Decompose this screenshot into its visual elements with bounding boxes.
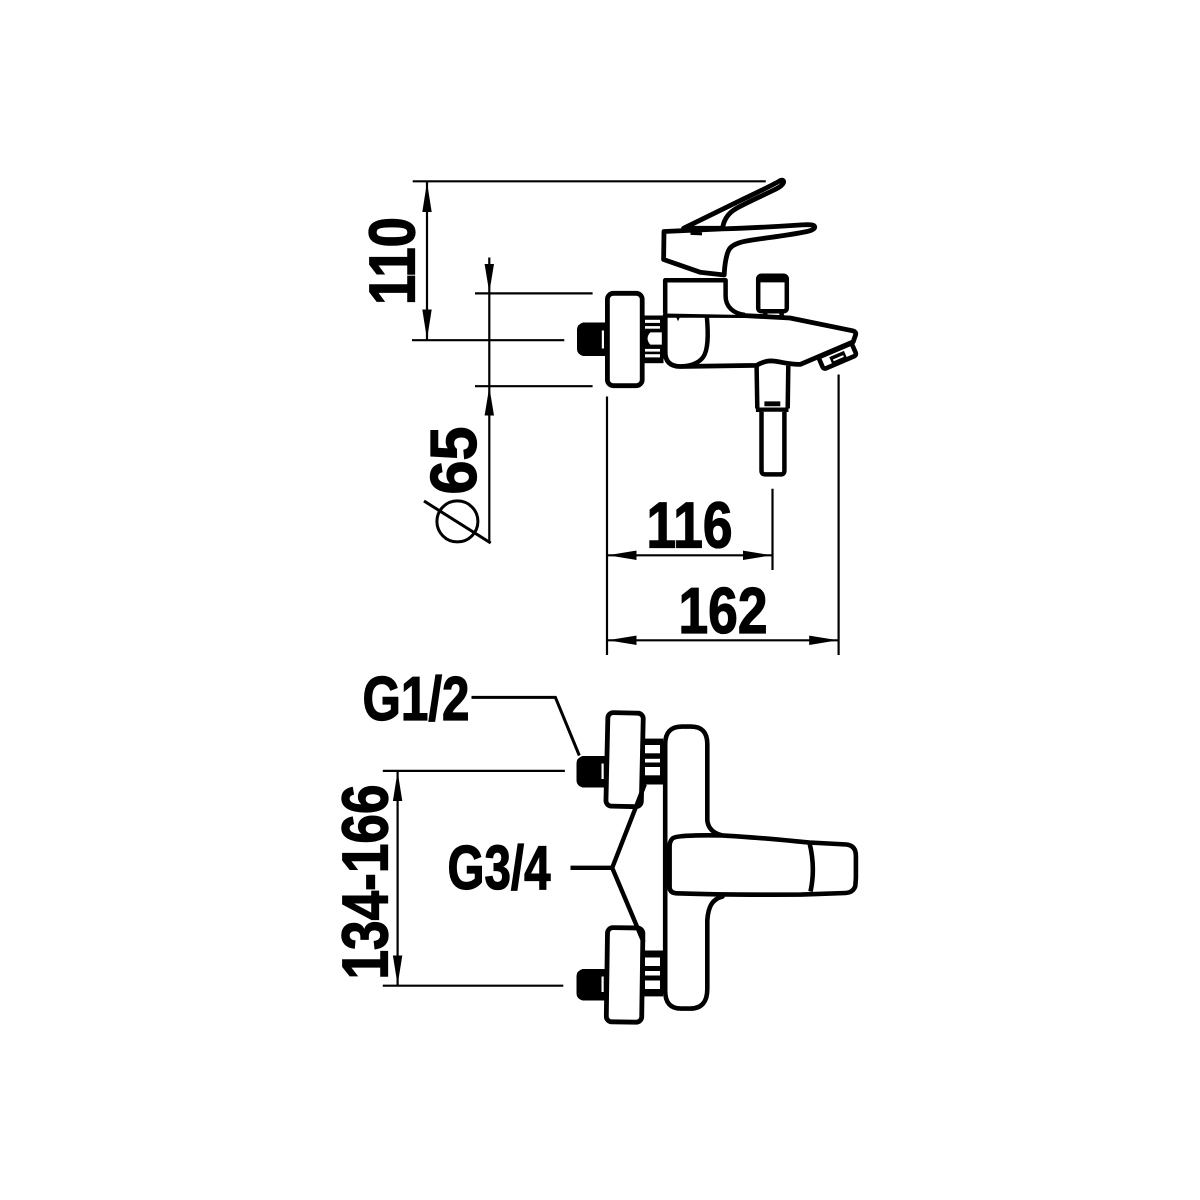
extension line: hose outlet axis (116 right) <box>771 489 773 570</box>
diameter symbol circle <box>437 501 478 542</box>
extension line: flange face (116/162 left) <box>606 397 608 656</box>
extension line: lever tip level (110 top) <box>413 180 766 182</box>
extension line: union axis (110 bottom) <box>412 339 564 341</box>
dimension line 116 <box>608 554 773 556</box>
front view: top hex nut <box>577 756 607 788</box>
arrow 110 top <box>422 182 431 212</box>
side view: small notch on body top edge <box>677 315 680 318</box>
side view: diverter stem right <box>779 312 784 316</box>
leader G1/2 <box>472 697 580 755</box>
arrow 162 left <box>608 636 637 645</box>
dimension line 134-166 <box>397 771 399 985</box>
front view: handle <box>670 835 856 894</box>
arrow 65 top (outside, pointing down) <box>485 264 494 293</box>
side view: diverter knob top cap <box>758 276 787 283</box>
side view: diverter stem left <box>763 312 768 316</box>
side view: wall hex nut G1/2 <box>577 323 607 357</box>
side view: aerator on spout tip <box>818 343 856 369</box>
front view: bottom union flange <box>606 928 643 1023</box>
side view: threaded connector ribs <box>644 316 664 364</box>
front view: bottom hex nut <box>577 969 607 1001</box>
leader G3/4 fork <box>571 784 645 942</box>
arrow 110 bottom <box>422 310 431 340</box>
arrow 116 left <box>608 551 637 560</box>
dimension line 65 (stub + through) <box>488 258 490 544</box>
side view: faucet body with spout <box>665 315 856 366</box>
arrow 65 bottom (outside, pointing up) <box>485 387 494 416</box>
side view: shower hose outlet taper left edge <box>754 366 759 408</box>
side view: lever blade <box>684 180 784 228</box>
svg-text:G1/2: G1/2 <box>363 665 470 734</box>
side view: outlet inner dash <box>764 401 780 406</box>
diameter symbol slash <box>424 501 491 543</box>
extension line: top union axis (134-166 top) <box>383 770 565 772</box>
arrow 134-166 top <box>393 772 402 802</box>
side view: diverter knob <box>758 276 787 312</box>
side view: outlet tube <box>762 412 785 475</box>
extension line: spout tip (162 right) <box>837 375 839 656</box>
arrow 116 right <box>743 551 772 560</box>
side view: wall flange (escutcheon) <box>607 293 642 385</box>
arrow 134-166 bottom <box>393 956 402 986</box>
dimension line 162 <box>608 639 839 641</box>
side view: cartridge collar <box>665 280 745 315</box>
svg-text:G3/4: G3/4 <box>448 834 551 903</box>
side view: handle parting dash <box>691 232 703 236</box>
svg-text:134-166: 134-166 <box>329 785 401 980</box>
front view: top union flange <box>606 713 644 807</box>
side view: inner cartridge housing curve <box>681 316 708 366</box>
side view: shower hose outlet taper right edge <box>785 366 790 409</box>
svg-text:116: 116 <box>647 490 733 562</box>
front view: bottom nut slit <box>602 977 604 993</box>
extension line: bottom union axis (134-166 bottom) <box>383 985 564 987</box>
arrow 162 right <box>809 636 838 645</box>
svg-text:162: 162 <box>679 575 768 647</box>
front view: handle grip separator <box>809 843 812 892</box>
svg-text:110: 110 <box>356 217 428 305</box>
extension line: flange top (65 top) <box>475 292 593 294</box>
svg-text:65: 65 <box>418 427 490 495</box>
extension line: flange bottom (65 bottom) <box>475 385 593 387</box>
front view: top nut slit <box>602 764 604 780</box>
dimension line 110 <box>426 182 428 340</box>
front view: bottom union ribs <box>644 951 664 997</box>
side view: outlet joint line <box>756 407 789 412</box>
front view: faucet body <box>665 727 722 1009</box>
front view: top union ribs <box>644 739 664 785</box>
side view: nut slit <box>602 331 604 349</box>
side view: handle dome and tail <box>664 225 815 275</box>
